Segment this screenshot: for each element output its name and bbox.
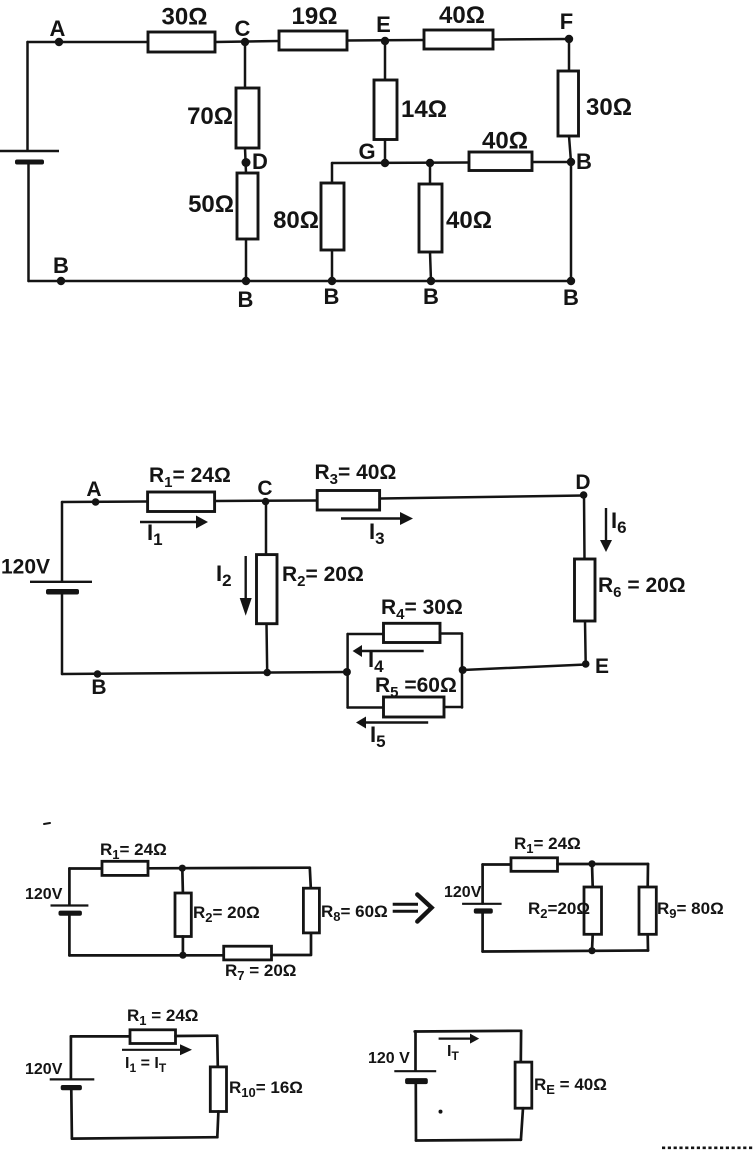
- svg-text:R2= 20Ω: R2= 20Ω: [282, 563, 364, 590]
- svg-text:R2=20Ω: R2=20Ω: [528, 899, 590, 921]
- wire: C down to 70ohm: [244, 42, 247, 88]
- svg-text:40Ω: 40Ω: [446, 207, 492, 234]
- svg-text:R2= 20Ω: R2= 20Ω: [193, 903, 260, 925]
- svg-text:80Ω: 80Ω: [273, 207, 319, 234]
- wire: R7 to right rail (block 3): [272, 954, 310, 957]
- resistor 40ohm (G row to B): [469, 152, 532, 171]
- svg-text:I1: I1: [147, 520, 163, 549]
- wire: top rail right corner down to R9: [646, 864, 649, 887]
- resistor R2 20ohm: [257, 555, 278, 624]
- resistor 80ohm: [321, 183, 344, 250]
- junction dot bottom (block 3): [179, 952, 186, 959]
- wire: battery to bottom rail (block 5): [70, 1090, 73, 1138]
- wire: junction down to 40ohm vertical: [429, 163, 432, 184]
- wire: R8 to bottom rail: [310, 933, 313, 955]
- svg-text:R5 =60Ω: R5 =60Ω: [375, 674, 457, 701]
- resistor R8 60ohm: [303, 888, 319, 933]
- svg-text:120V: 120V: [444, 884, 482, 901]
- node B dot (under 80ohm): [328, 277, 336, 285]
- resistor 70ohm (C-D): [236, 88, 259, 148]
- wire: top rail to R1 (block 5): [71, 1035, 130, 1038]
- svg-text:R1= 24Ω: R1= 24Ω: [149, 464, 231, 491]
- svg-text:120V: 120V: [25, 1061, 63, 1078]
- svg-text:R1= 24Ω: R1= 24Ω: [514, 834, 581, 856]
- wire: bottom rail (block 4): [483, 951, 648, 952]
- current arrow I1=IT: [122, 1049, 180, 1051]
- svg-text:B: B: [53, 253, 69, 278]
- wire: 19ohm to 40ohm top: [347, 39, 424, 42]
- wire: top rail down to battery plus: [61, 502, 64, 581]
- resistor 14ohm (E-G): [374, 80, 397, 140]
- current arrow I6: [605, 508, 607, 540]
- wire: 30ohm to node B right: [569, 136, 571, 162]
- resistor R1 24ohm: [148, 492, 215, 512]
- current arrow I1: [140, 521, 196, 523]
- svg-text:I5: I5: [370, 722, 386, 751]
- svg-text:I1 = IT: I1 = IT: [125, 1055, 167, 1075]
- wire: R6 down to node E: [584, 621, 587, 664]
- svg-text:IT: IT: [447, 1043, 459, 1063]
- junction dot (left rail): [343, 668, 351, 676]
- svg-text:E: E: [376, 12, 391, 37]
- junction dot top (block 3): [179, 865, 186, 872]
- svg-text:R3= 40Ω: R3= 40Ω: [315, 461, 397, 488]
- wire: right rail down to RE: [519, 1031, 522, 1062]
- wire: battery to bottom rail: [27, 165, 30, 282]
- wire: 70ohm to 50ohm through D: [245, 148, 246, 173]
- svg-text:30Ω: 30Ω: [586, 94, 632, 121]
- wire: 40ohm to node F: [493, 38, 569, 41]
- wire: R4 to right rail: [440, 632, 462, 635]
- wire: node A rail down to battery: [26, 42, 29, 150]
- dotted page edge mark: [662, 1147, 753, 1150]
- stray dot mark: [439, 1110, 443, 1114]
- wire: battery to bottom rail (block 3): [68, 916, 71, 956]
- wire: battery+ to R 30ohm (top rail left): [28, 41, 149, 44]
- resistor R7 20ohm: [224, 946, 272, 960]
- current arrow I5: [366, 721, 428, 723]
- wire: left rail to R5: [348, 706, 384, 709]
- wire: R1 to right rail (block 4): [558, 863, 649, 866]
- wire: top rail (block 6): [415, 1029, 521, 1032]
- wire: right rail to node E: [463, 665, 586, 671]
- svg-text:B: B: [576, 149, 592, 174]
- resistor 30ohm (F-B): [558, 71, 579, 136]
- resistor R3 40ohm: [317, 491, 379, 511]
- svg-text:E: E: [595, 655, 609, 678]
- wire: battery to bottom rail (block 4): [481, 914, 484, 952]
- wire: C down to R2: [265, 502, 268, 555]
- resistor R9 80ohm: [639, 887, 656, 934]
- svg-text:B: B: [238, 287, 254, 312]
- wire: junction down to R2 (block 4): [591, 864, 594, 887]
- resistor 40ohm (E-F): [424, 30, 493, 49]
- wire: top rail to R1 (block 3): [69, 867, 102, 870]
- wire: 40ohm to node B right: [532, 161, 571, 164]
- svg-text:R10= 16Ω: R10= 16Ω: [229, 1078, 303, 1100]
- wire: R5 to right rail: [444, 706, 462, 709]
- junction dot (right rail): [459, 666, 467, 674]
- wire: G row down-left to 80ohm: [331, 163, 334, 183]
- wire: node B right down to bottom rail: [570, 162, 573, 281]
- wire: battery to bottom rail (block 6): [414, 1084, 417, 1140]
- svg-text:30Ω: 30Ω: [162, 4, 208, 31]
- wire: parallel block right rail: [461, 634, 464, 708]
- wire: R2 to bottom rail (block 4): [591, 934, 594, 950]
- wire: R2 down to bottom rail: [265, 624, 268, 673]
- wire: bottom rail B: [29, 280, 572, 283]
- wire: E down to 14ohm: [384, 41, 387, 80]
- wire: parallel block left rail: [346, 634, 349, 708]
- wire: top junction down to R2 (block 3): [181, 868, 184, 893]
- wire: RE to bottom rail: [521, 1108, 523, 1140]
- svg-text:120 V: 120 V: [368, 1050, 410, 1067]
- node A (dot, middle circuit): [92, 498, 100, 506]
- svg-text:A: A: [86, 478, 101, 501]
- svg-text:14Ω: 14Ω: [401, 96, 447, 123]
- node E (junction dot): [381, 37, 389, 45]
- junction dot bottom (block 4): [588, 947, 595, 954]
- resistor R2 20ohm (block 4): [584, 887, 602, 934]
- resistor 50ohm (D-B): [237, 173, 258, 239]
- svg-text:B: B: [91, 676, 106, 699]
- wire: right rail down to R10: [216, 1036, 219, 1067]
- svg-text:G: G: [358, 139, 375, 164]
- svg-text:40Ω: 40Ω: [439, 2, 485, 29]
- wire: F down to 30ohm right: [568, 39, 571, 71]
- wire: left rail to battery (block 5): [70, 1036, 73, 1078]
- wire: D down to R6: [583, 495, 586, 559]
- svg-text:D: D: [252, 149, 268, 174]
- battery 120V (block 5): [50, 1078, 95, 1080]
- resistor 19ohm (C-E): [279, 31, 347, 50]
- wire: R1 to R3 through C: [215, 499, 318, 502]
- junction dot on G row: [426, 159, 434, 167]
- resistor R4 30ohm: [384, 623, 441, 642]
- resistor R10 16ohm: [210, 1067, 226, 1112]
- svg-text:I6: I6: [611, 508, 627, 537]
- resistor RE 40ohm: [515, 1062, 532, 1108]
- battery 120V (block 4): [462, 903, 502, 905]
- resistor R6 20ohm: [575, 559, 596, 621]
- wire: 30ohm to 19ohm: [215, 41, 279, 42]
- resistor 30ohm (A-C): [148, 32, 215, 52]
- wire: R2 to bottom junction (block 3): [182, 937, 185, 956]
- resistor R1 24ohm (block 5): [130, 1030, 176, 1044]
- junction dot top (block 4): [588, 860, 595, 867]
- node E (junction dot): [582, 660, 590, 668]
- wire: battery top rail to R1: [62, 500, 148, 503]
- svg-text:C: C: [235, 16, 251, 41]
- current arrow I2: [244, 556, 246, 598]
- wire: 40ohm vertical to bottom rail: [430, 252, 431, 281]
- wire: left rail to battery (block 3): [68, 869, 71, 905]
- svg-text:R1 = 24Ω: R1 = 24Ω: [127, 1006, 198, 1028]
- resistor 40ohm (vertical): [419, 184, 442, 252]
- svg-text:19Ω: 19Ω: [292, 3, 338, 30]
- svg-text:D: D: [575, 471, 590, 494]
- svg-text:R8= 60Ω: R8= 60Ω: [321, 902, 388, 924]
- node F (junction dot): [565, 35, 573, 43]
- node B dot (bottom right): [567, 277, 575, 285]
- svg-text:B: B: [324, 284, 340, 309]
- svg-text:40Ω: 40Ω: [482, 128, 528, 155]
- resistor R1 24ohm (block 3): [102, 861, 148, 875]
- node D (junction dot): [242, 158, 251, 167]
- wire: 80ohm to bottom rail: [331, 250, 334, 281]
- svg-text:R9= 80Ω: R9= 80Ω: [657, 899, 724, 921]
- svg-text:120V: 120V: [25, 886, 63, 903]
- wire: R1 to right rail (block 3): [148, 866, 310, 869]
- wire: battery minus to bottom rail: [61, 595, 64, 675]
- svg-text:I2: I2: [216, 561, 232, 590]
- battery 120V (block 3): [51, 904, 89, 906]
- wire: R10 to bottom rail: [217, 1112, 218, 1138]
- node B (right mid junction dot): [567, 158, 575, 166]
- wire: bottom rail left (block 3): [69, 954, 223, 957]
- node D (junction dot): [580, 491, 588, 499]
- current arrow I4: [362, 650, 424, 652]
- svg-text:70Ω: 70Ω: [187, 103, 233, 130]
- node B dot (under 40ohm): [427, 277, 435, 285]
- node C (junction dot, middle circuit): [262, 498, 270, 506]
- resistor R2 20ohm (block 3): [175, 893, 191, 937]
- svg-text:120V: 120V: [1, 556, 50, 579]
- wire: left rail to battery (block 6): [414, 1032, 417, 1071]
- node G (junction dot): [381, 159, 389, 167]
- wire: bottom rail B to R4R5 block: [62, 672, 348, 674]
- wire: top rail to R1 (block 4): [483, 863, 511, 866]
- wire: R3 to node D: [380, 496, 584, 499]
- node B dot (under 50ohm): [242, 277, 250, 285]
- svg-text:R7 = 20Ω: R7 = 20Ω: [225, 961, 296, 983]
- svg-text:RE = 40Ω: RE = 40Ω: [534, 1075, 607, 1097]
- wire: R1 to right rail (block 5): [176, 1034, 218, 1037]
- battery 120V (block 6): [394, 1070, 436, 1072]
- wire: right rail top to R8: [310, 868, 311, 889]
- current arrow I3: [341, 517, 400, 519]
- battery V1 (top circuit): [0, 150, 59, 152]
- junction dot (R2 to bottom rail): [263, 669, 271, 677]
- battery 120V (middle circuit): [30, 581, 92, 583]
- svg-text:A: A: [50, 16, 66, 41]
- svg-text:B: B: [423, 284, 439, 309]
- node A (junction dot): [55, 38, 63, 46]
- equivalence arrow (double-line arrow): [393, 895, 432, 922]
- svg-text:R6 = 20Ω: R6 = 20Ω: [598, 574, 686, 601]
- wire: R9 to bottom rail: [646, 934, 649, 950]
- wire: 14ohm to node G: [384, 140, 387, 164]
- svg-text:F: F: [560, 9, 573, 34]
- node B (bottom left dot): [57, 277, 65, 285]
- svg-text:C: C: [257, 477, 272, 500]
- current arrow IT: [439, 1037, 470, 1039]
- svg-text:I3: I3: [369, 519, 385, 548]
- node B (dot, middle circuit): [94, 670, 102, 678]
- wire: left rail to battery (block 4): [481, 865, 484, 904]
- wire: bottom rail (block 6): [416, 1138, 521, 1141]
- svg-text:50Ω: 50Ω: [188, 191, 234, 218]
- wire: 50ohm down to bottom rail: [245, 239, 248, 281]
- wire: left rail to R4: [348, 633, 384, 636]
- wire: bottom rail (block 5): [72, 1137, 217, 1138]
- svg-text:R4= 30Ω: R4= 30Ω: [381, 596, 463, 623]
- resistor R5 60ohm: [384, 697, 445, 717]
- node C (junction dot): [241, 38, 249, 46]
- svg-text:B: B: [563, 285, 579, 310]
- wire: G row horizontal: [332, 161, 469, 164]
- svg-text:R1= 24Ω: R1= 24Ω: [100, 840, 167, 862]
- stray dash mark: [44, 823, 50, 824]
- resistor R1 24ohm (block 4): [511, 858, 558, 872]
